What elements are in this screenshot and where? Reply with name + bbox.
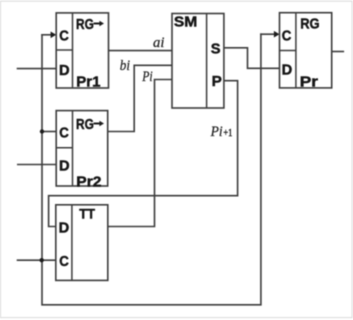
TT pin-field divider [71,205,73,281]
svg-text:SM: SM [174,15,197,31]
svg-text:D: D [59,221,70,237]
register Pr2 body [56,111,107,186]
junction at clock rail / Pr2 C [40,129,44,133]
wire: net bi from Pr2 output to SM input [108,65,172,131]
svg-text:D: D [59,158,70,174]
SM output-field divider [206,14,208,109]
wire: clock arrow into Pr1 pin C [42,34,52,36]
svg-text:S: S [211,41,221,57]
svg-text:TT: TT [79,207,96,222]
adder SM body [172,14,224,109]
svg-text:bi: bi [120,58,130,74]
svg-text:Pi: Pi [141,69,152,85]
arrowhead into Pr1 C [51,32,57,39]
net label Pi+1 [210,124,233,140]
wire: clock branch to Pr2 pin C [42,131,56,133]
wire: external input to Pr2 pin D [18,164,56,166]
svg-text:C: C [282,28,292,44]
wire: Pr output stub [332,51,344,53]
wire: external clock input to TT pin C [18,259,56,261]
wire: external input to Pr1 pin D [18,68,57,70]
junction at clock rail / TT C [40,258,44,262]
wire: net S from SM output to Pr pin D [224,48,280,69]
svg-text:RG: RG [76,117,94,133]
svg-text:RG: RG [300,16,319,32]
svg-text:C: C [59,29,69,45]
label RG→ of Pr2 [76,117,104,133]
wire: clock rail left vertical + bottom + right vertical (net C) [42,34,261,305]
wire: net Pi+1 from SM output P back to TT pin D [49,81,238,227]
svg-text:ai: ai [153,35,164,51]
label RG→ of Pr1 [76,17,104,33]
flip-flop TT body [56,205,108,281]
wire: clock arrow into Pr pin C [261,33,276,35]
svg-text:C: C [59,254,69,270]
register Pr body [280,13,332,88]
svg-text:RG: RG [76,17,94,33]
Pr2 pin-field divider [56,111,72,186]
svg-text:+1: +1 [223,127,232,139]
wire: net ai from Pr1 output to SM input [109,50,173,52]
svg-text:P: P [212,74,223,90]
Pr1 pin-field divider [56,13,72,88]
register Pr1 body [56,13,108,88]
svg-text:Pi: Pi [210,124,223,140]
svg-text:Pr: Pr [300,74,319,90]
svg-text:C: C [59,126,69,142]
svg-text:Pr2: Pr2 [76,175,101,191]
svg-text:D: D [59,63,70,79]
svg-text:Pr1: Pr1 [76,75,100,91]
arrowhead into Pr C [274,31,280,38]
wire: net Pi from TT output to SM input [108,80,172,227]
svg-text:D: D [282,63,293,79]
Pr pin-field divider [280,13,296,88]
